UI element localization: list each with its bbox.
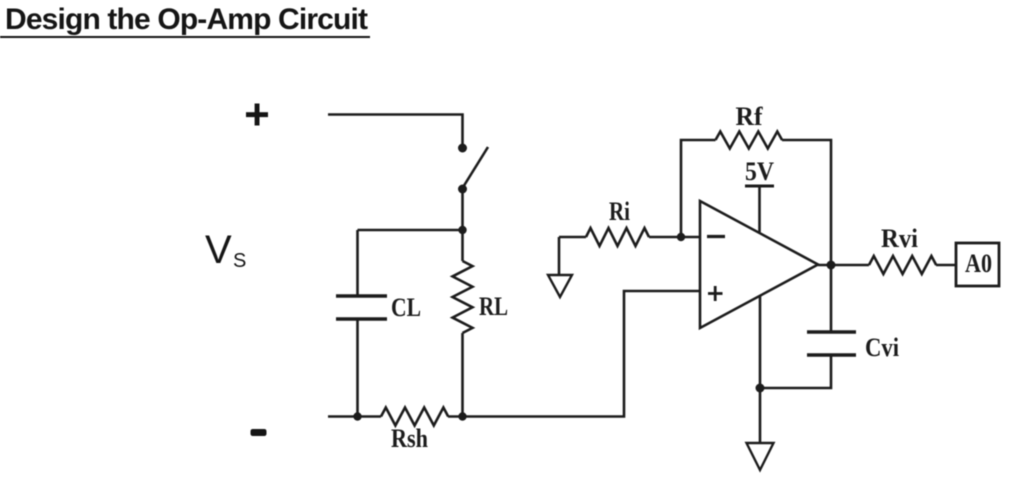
svg-text:Rf: Rf xyxy=(736,102,763,131)
svg-text:A0: A0 xyxy=(965,249,992,278)
svg-text:Ri: Ri xyxy=(609,197,630,226)
svg-text:Cvi: Cvi xyxy=(865,333,899,362)
svg-text:5V: 5V xyxy=(745,157,774,186)
svg-text:V: V xyxy=(205,228,232,272)
svg-text:Rsh: Rsh xyxy=(391,424,428,453)
svg-text:S: S xyxy=(233,250,246,272)
svg-text:RL: RL xyxy=(479,292,508,321)
svg-text:CL: CL xyxy=(391,293,421,322)
svg-text:Rvi: Rvi xyxy=(881,224,918,253)
